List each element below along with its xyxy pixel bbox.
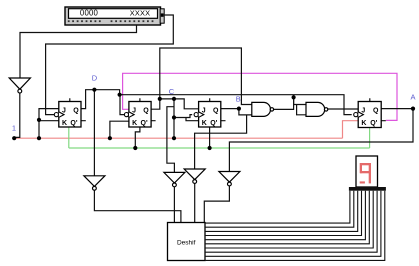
red net junction at FF1 [37, 136, 41, 140]
wire: inverter U3 output to decoder [173, 187, 175, 223]
wire: generator right port to FF1 clock [46, 15, 174, 115]
inverter U7 (bit A) [219, 172, 240, 186]
wire: FF3 Q output [221, 108, 239, 110]
decoder output bus to 7-segment display [205, 191, 385, 261]
svg-text:A: A [410, 93, 415, 102]
svg-text:Q: Q [143, 108, 149, 115]
decoder U8 Deshif [168, 223, 206, 261]
wire: node B long line to FF4 clock [120, 95, 352, 115]
svg-text:Q: Q [73, 108, 79, 115]
magenta net: FF4 Q-bar feedback to FF2 J [123, 73, 397, 120]
inverter U4 (bit B) [184, 169, 205, 183]
FF1 J/K tie junction [37, 118, 41, 122]
svg-text:K: K [132, 120, 137, 127]
wire: inverter U7 output routed to decoder [204, 186, 229, 223]
flip-flop FF2 [124, 102, 151, 128]
7-segment digit 9 (red) [360, 163, 371, 184]
red net junction at FF3 [172, 136, 176, 140]
svg-text:K: K [202, 120, 207, 127]
red net junction at FF2 [108, 136, 112, 140]
svg-text:Q: Q [213, 108, 219, 115]
wire: NAND U5 output up to node B line [274, 95, 294, 110]
node labels [12, 74, 416, 133]
wire: red net to FF4 K input [343, 121, 359, 139]
wire: node D tap down to inverter U2 [93, 90, 95, 176]
wire: to NAND U6 lower input [297, 105, 306, 115]
flip-flop FF3 [194, 102, 221, 128]
flip-flop FF1 [54, 102, 81, 128]
wire: node C to FF3 J input [174, 99, 199, 109]
wire: node C down to red net [173, 118, 175, 139]
green net (clear rail) [69, 127, 370, 148]
svg-text:0000: 0000 [80, 9, 99, 18]
wire: FF4 Q output to node A [381, 108, 413, 110]
wire: node D to FF2 clock [120, 95, 124, 115]
flip-flop FF4 [354, 102, 382, 128]
wire: FF preset stubs [70, 98, 370, 101]
svg-text:Deshif: Deshif [177, 240, 196, 247]
node C junction 1 [158, 97, 162, 101]
wire: node C vertical and branch to inverter U3 [167, 99, 175, 172]
wire: FF2 clear pin to green net [135, 127, 140, 148]
node 1 junction [12, 136, 16, 140]
svg-text:C: C [169, 87, 175, 96]
7-segment display U9 [349, 156, 386, 191]
NAND gate U6 [306, 102, 328, 116]
node A junction [411, 107, 415, 111]
word generator X1 (display instrument) [65, 7, 164, 25]
wire: generator bottom pin to inverter U1 input [20, 25, 137, 78]
wire: FF Q-bar stubs [81, 120, 386, 122]
svg-text:Q': Q' [370, 120, 377, 127]
wire: FF2 Q output to node C [151, 99, 174, 109]
wire: inverter U1 output to node 1 [14, 93, 20, 137]
wire: inverter U4 output to decoder [194, 183, 196, 222]
wire: node Q3 to NAND U5 lower input [239, 109, 252, 115]
svg-text:Q: Q [373, 108, 379, 115]
inverter U1 (top left) [9, 78, 30, 93]
wire: to FF3 K input [186, 118, 199, 121]
node C junction 2 [172, 97, 176, 101]
node D junction [92, 88, 96, 92]
wire: green to FF1 clear [68, 127, 70, 148]
inverter U2 (bit D) [84, 176, 105, 190]
wire: FF3 clear pin down across green net [209, 127, 211, 148]
node C junction 3 [172, 115, 176, 119]
svg-text:Q': Q' [70, 120, 77, 127]
node Q3 junction [237, 107, 241, 111]
wire: Q3 net to inverter U4 input [195, 115, 247, 169]
wire: red net up to FF1 J and K inputs [39, 109, 59, 139]
wire: NAND U6 output to FF4 J input [328, 108, 358, 110]
svg-text:Q': Q' [141, 120, 148, 127]
wire: feedback loop from node Q2 over top to NAND U5 input [160, 48, 252, 105]
word generator pin row [68, 20, 154, 22]
node D/clk2 junction [118, 93, 122, 97]
green net junction at FF2 [133, 146, 137, 150]
red net "1" (J/K high rail) [14, 121, 358, 139]
svg-text:D: D [92, 74, 98, 83]
svg-text:XXXX: XXXX [130, 9, 151, 18]
svg-text:K: K [361, 120, 366, 127]
svg-text:Q': Q' [210, 120, 217, 127]
wire: inverter U2 output routed to decoder [94, 190, 180, 222]
wire: FF1 Q output to node D [81, 90, 119, 109]
wire: green to FF4 clear [369, 128, 371, 149]
wire: node C to FF3 clock [174, 115, 192, 118]
wire: node A down and left to inverter U7 input [229, 109, 413, 172]
green net junction at FF3 [208, 146, 212, 150]
wire: node to NAND U6 upper input [294, 97, 306, 104]
svg-text:1: 1 [12, 123, 16, 132]
svg-text:K: K [62, 120, 67, 127]
node B junction [292, 95, 296, 99]
NAND gate U5 [252, 102, 274, 116]
wire: red net up to FF2 K input [110, 121, 129, 138]
inverter U3 (bit C) [164, 172, 185, 186]
junction dots [12, 88, 415, 150]
svg-text:B: B [236, 94, 241, 103]
